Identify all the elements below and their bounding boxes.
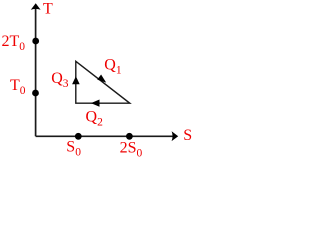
node 2S0 dot bbox=[126, 133, 133, 140]
svg-text:2S0: 2S0 bbox=[120, 140, 143, 160]
svg-text:Q2: Q2 bbox=[86, 109, 104, 129]
svg-text:Q1: Q1 bbox=[104, 57, 122, 77]
node 2T0 dot bbox=[32, 38, 39, 45]
svg-text:T0: T0 bbox=[10, 77, 26, 97]
svg-text:Q3: Q3 bbox=[51, 70, 69, 90]
svg-text:S: S bbox=[183, 127, 192, 144]
cycle triangle bbox=[76, 61, 130, 103]
svg-text:2T0: 2T0 bbox=[2, 33, 26, 53]
svg-text:T: T bbox=[43, 1, 53, 18]
S axis (horizontal) bbox=[36, 131, 179, 141]
arrow Q3 (up, on left edge) bbox=[72, 76, 80, 84]
T axis (vertical) bbox=[31, 3, 41, 136]
arrow Q1 (down-right, on hypotenuse) bbox=[97, 75, 106, 83]
svg-text:S0: S0 bbox=[66, 139, 81, 159]
node T0 dot bbox=[32, 90, 39, 97]
node S0 dot bbox=[75, 133, 82, 140]
arrow Q2 (left, on bottom edge) bbox=[91, 100, 100, 107]
